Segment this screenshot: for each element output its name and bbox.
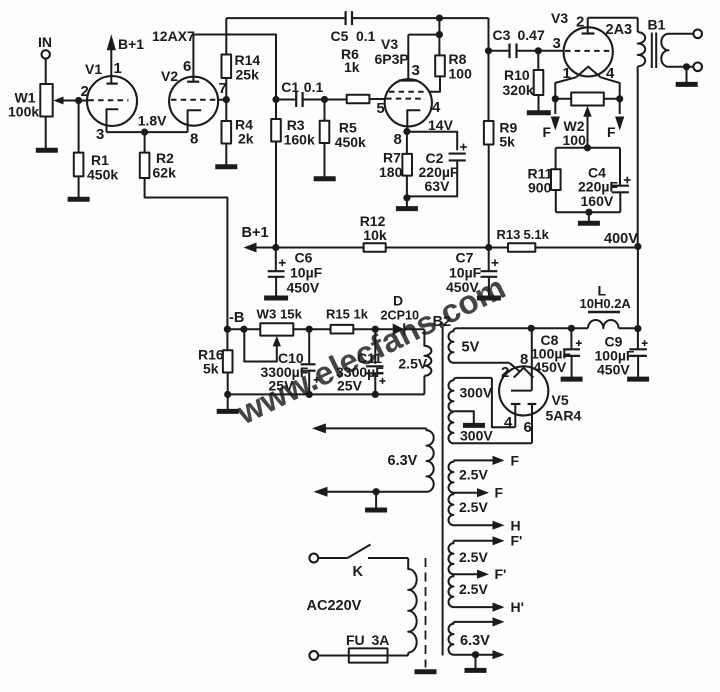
- resistor R16 5k: [198, 347, 233, 377]
- -B rail segment 2: [293, 328, 330, 330]
- wire B1 primary down to 400V node: [637, 66, 639, 246]
- potentiometer W3 15k: [257, 307, 303, 336]
- diode D 2CP10: [381, 293, 420, 336]
- V1 cathode: [96, 109, 118, 143]
- capacitor C1 0.1: [281, 79, 323, 107]
- svg-text:450V: 450V: [597, 362, 630, 378]
- wire to ground: [588, 212, 590, 221]
- pentode V3 envelope: [375, 36, 432, 126]
- svg-text:1k: 1k: [354, 307, 369, 322]
- resistor R15 1k: [326, 307, 369, 334]
- wire V2 plate to C1 node: [193, 35, 276, 100]
- svg-text:C1: C1: [281, 79, 299, 95]
- svg-text:5k: 5k: [499, 134, 515, 150]
- svg-text:W3 15k: W3 15k: [257, 307, 303, 322]
- svg-text:25k: 25k: [236, 67, 260, 83]
- V3 cathode: [407, 99, 441, 132]
- svg-text:V2: V2: [161, 68, 178, 84]
- V2 plate: [183, 35, 199, 82]
- winding 2.5V F lower: [448, 493, 488, 526]
- wire R12 to C7 node: [386, 247, 508, 249]
- svg-text:V1: V1: [85, 61, 102, 77]
- F arrow right of W2: [607, 99, 624, 140]
- svg-text:2: 2: [576, 14, 584, 31]
- ground under 6.3V right: [465, 668, 487, 673]
- B+1 rail arrow: [244, 243, 364, 253]
- label B2: [433, 314, 452, 330]
- triode V4 2A3 envelope: [551, 10, 632, 77]
- wire H arrow: [454, 518, 521, 534]
- C4 box left wire upper: [555, 148, 557, 169]
- svg-text:0.1: 0.1: [356, 28, 376, 44]
- svg-text:F: F: [511, 453, 520, 469]
- W3 wiper loop: [244, 329, 281, 361]
- bias bottom rail: [228, 393, 425, 395]
- wire C3 left: [489, 50, 510, 52]
- wire C1 left: [276, 99, 296, 101]
- wire C3node down to R9: [488, 51, 490, 121]
- node C11 bottom: [372, 391, 379, 398]
- output terminal top: [693, 30, 702, 39]
- V5 plate pin4: [504, 404, 520, 431]
- wire node8 to C2 top: [407, 132, 457, 150]
- ground under W1: [36, 148, 58, 153]
- node top rail: [436, 15, 443, 22]
- svg-text:B+1: B+1: [242, 225, 269, 241]
- choke L 10H0.2A: [580, 283, 632, 329]
- potentiometer W2 100: [555, 93, 619, 149]
- node C3 left: [485, 47, 492, 54]
- ground under shield: [415, 669, 437, 674]
- svg-text:100: 100: [449, 66, 473, 82]
- V4 filament: [576, 67, 601, 78]
- svg-text:450V: 450V: [287, 280, 320, 296]
- wire 300V upper to pin4: [492, 378, 515, 427]
- wire R10 to ground: [538, 95, 540, 111]
- ground under R7: [396, 206, 418, 211]
- svg-text:3A: 3A: [372, 632, 390, 648]
- ground at 300V tap: [463, 423, 485, 428]
- C4 box right wire lower: [619, 192, 621, 212]
- wire R5 to ground: [324, 143, 326, 177]
- wire C7 top: [488, 248, 490, 272]
- svg-text:3: 3: [412, 62, 420, 79]
- svg-text:K: K: [353, 564, 364, 580]
- wire R9 to C7 node: [488, 145, 490, 248]
- node C1 left: [272, 96, 279, 103]
- wire R13 to 400V node: [535, 247, 638, 249]
- wire C10 bottom: [308, 371, 310, 395]
- svg-text:2.5V: 2.5V: [459, 549, 488, 565]
- ground under R1: [68, 197, 90, 202]
- wire 6.3V bottom arrow: [314, 487, 427, 497]
- wire H' arrow: [454, 599, 524, 615]
- svg-text:IN: IN: [38, 34, 52, 50]
- wire V3 plate horiz: [408, 34, 439, 36]
- ground under C7: [477, 296, 501, 301]
- wire V4 plate to B1: [588, 17, 638, 19]
- resistor R6 1k: [341, 46, 369, 103]
- V5 filament: [501, 364, 533, 381]
- node 1.8V junction: [141, 129, 148, 136]
- wire to ground: [227, 394, 229, 409]
- wire 5V winding to pin2: [454, 363, 521, 372]
- rectifier V5 envelope: [499, 366, 581, 423]
- node 7 junction: [223, 96, 230, 103]
- resistor R14 25k: [222, 52, 261, 83]
- node C10 top: [306, 326, 313, 333]
- node B1 secondary ground: [683, 63, 690, 70]
- output terminal bottom: [693, 63, 702, 72]
- svg-text:3: 3: [553, 35, 561, 52]
- wire C6 to ground: [275, 277, 277, 296]
- svg-text:300V: 300V: [460, 385, 493, 401]
- svg-text:V3: V3: [381, 36, 398, 52]
- node 400V: [634, 243, 641, 250]
- node pin4: [616, 95, 623, 102]
- wire C6 top: [275, 248, 277, 272]
- V1 grid (dashed): [88, 99, 128, 101]
- wire node2 to V1 grid: [79, 100, 89, 102]
- ground under C6: [264, 296, 288, 301]
- wire node8 to R7: [406, 132, 408, 154]
- C4 box left wire lower: [555, 190, 557, 212]
- C4 box bottom wire: [556, 211, 621, 213]
- output transformer B1 primary: [638, 17, 666, 67]
- top feedback rail right: [352, 17, 488, 19]
- V4 grid (dashed): [553, 35, 612, 52]
- node C4 bottom: [585, 209, 592, 216]
- F arrow left of W2: [543, 99, 560, 140]
- wire W1 to ground: [45, 117, 47, 149]
- V5 cathode bar: [511, 390, 532, 392]
- wire L to C9 node: [619, 327, 638, 329]
- ground under R10: [527, 110, 551, 115]
- node 2 junction: [75, 83, 89, 104]
- resistor R8 100: [435, 51, 472, 82]
- winding 6.3V right: [448, 617, 504, 659]
- triode V1 envelope: [85, 61, 137, 126]
- svg-text:450k: 450k: [335, 134, 366, 150]
- node rectifier output: [528, 325, 535, 332]
- svg-text:10µF: 10µF: [290, 265, 323, 281]
- V5 pin8 lead: [520, 328, 532, 390]
- V4 pin4 lead: [601, 65, 620, 99]
- svg-text:300V: 300V: [460, 428, 493, 444]
- svg-text:5: 5: [376, 100, 384, 117]
- svg-text:H': H': [511, 599, 524, 615]
- svg-text:R10: R10: [504, 67, 530, 83]
- wire node2 to R1: [78, 101, 80, 153]
- wire V2 grid pin7: [219, 80, 227, 100]
- C4 box top wire: [556, 147, 620, 149]
- wire rail to C8 node: [531, 327, 588, 329]
- svg-text:5V: 5V: [462, 340, 480, 356]
- node -B: [224, 310, 245, 333]
- svg-text:180: 180: [379, 164, 403, 180]
- wire D to bias winding: [404, 328, 424, 330]
- ground under C8: [561, 377, 583, 382]
- ground under R5: [314, 176, 336, 181]
- B2 core: [442, 327, 444, 656]
- svg-text:R13: R13: [497, 227, 521, 242]
- svg-text:4: 4: [504, 414, 513, 431]
- wire F mid arrow: [454, 485, 504, 501]
- mains terminal top: [309, 554, 318, 563]
- svg-text:8: 8: [394, 131, 402, 148]
- label B+1 rail: [242, 225, 269, 241]
- svg-text:160V: 160V: [581, 193, 614, 209]
- svg-text:AC220V: AC220V: [307, 598, 362, 614]
- svg-text:900: 900: [528, 180, 552, 196]
- B2 primary winding: [408, 558, 417, 656]
- bias winding 2.5V: [398, 329, 431, 394]
- wire R4 to ground: [225, 144, 227, 165]
- svg-text:1: 1: [114, 60, 122, 77]
- svg-text:1: 1: [563, 65, 571, 82]
- node C1 right: [321, 96, 328, 103]
- winding 300V upper: [449, 378, 493, 412]
- svg-text:-B: -B: [229, 310, 244, 326]
- svg-text:C3: C3: [493, 27, 511, 43]
- label 400V: [604, 231, 638, 247]
- winding 2.5V F' lower: [449, 574, 489, 607]
- wire F' mid arrow: [454, 566, 507, 582]
- wire R3 to B+1 node: [275, 142, 277, 248]
- V5 plate pin6: [524, 404, 537, 443]
- resistor R10 320k: [503, 67, 544, 98]
- V3 plate: [399, 35, 420, 81]
- svg-text:2.5V: 2.5V: [459, 581, 488, 597]
- wire R14 to node7: [225, 78, 227, 100]
- mains terminal bottom: [309, 651, 318, 660]
- V4 pin1 lead: [555, 65, 576, 99]
- svg-text:63V: 63V: [425, 178, 451, 194]
- svg-text:1.8V: 1.8V: [138, 113, 167, 129]
- svg-text:100k: 100k: [8, 104, 39, 120]
- svg-text:FU: FU: [346, 632, 365, 648]
- V3 screen grid (dashed): [389, 91, 428, 93]
- resistor R11 900: [528, 166, 561, 196]
- wire node to V4 grid: [538, 50, 564, 52]
- node wiper to C4 box: [584, 144, 591, 151]
- svg-text:400V: 400V: [604, 231, 638, 247]
- resistor R7 180: [379, 150, 412, 181]
- node C11 top: [372, 326, 379, 333]
- wire R16 to bottom rail: [227, 373, 229, 395]
- wire node to R3: [275, 100, 277, 120]
- capacitor C5 0.1: [331, 11, 376, 44]
- wire C8 to ground: [571, 356, 573, 377]
- wire node to R5: [324, 100, 326, 121]
- svg-text:450k: 450k: [87, 167, 118, 183]
- wire to ground: [686, 67, 688, 83]
- capacitor C9 100uF 450V: [595, 334, 648, 378]
- wire top node vertical: [438, 18, 440, 34]
- wire R14 top to top rail: [225, 18, 227, 54]
- svg-text:F: F: [607, 124, 616, 140]
- node R8 top: [436, 31, 443, 38]
- svg-text:160k: 160k: [284, 132, 315, 148]
- svg-text:62k: 62k: [153, 165, 177, 181]
- wire C3 right: [517, 50, 539, 52]
- wire C7 to ground: [488, 277, 490, 296]
- node C10 bottom: [306, 391, 313, 398]
- node C7 top: [485, 244, 492, 251]
- svg-text:C5: C5: [331, 28, 349, 44]
- svg-text:V3: V3: [551, 10, 568, 26]
- svg-text:F': F': [495, 566, 507, 582]
- capacitor C3 0.47: [493, 27, 545, 58]
- svg-text:F: F: [495, 485, 504, 501]
- svg-text:4: 4: [606, 65, 615, 82]
- capacitor C2 220uF 63V: [419, 144, 467, 194]
- potentiometer W1 100k: [8, 84, 53, 120]
- svg-text:B+1: B+1: [118, 36, 144, 52]
- svg-text:6.3V: 6.3V: [388, 453, 418, 469]
- svg-text:6: 6: [524, 419, 532, 436]
- svg-text:D: D: [393, 293, 403, 309]
- V2 grid (dashed): [171, 99, 219, 101]
- resistor R12 10k: [360, 213, 387, 252]
- ground under R16: [217, 409, 239, 414]
- B1 core: [652, 33, 656, 69]
- wire node7 to R4: [225, 100, 227, 121]
- -B rail segment 1: [227, 328, 260, 330]
- capacitor C4 220uF 160V: [578, 165, 631, 210]
- wire node to R10: [537, 51, 539, 70]
- node C9 top: [634, 325, 641, 332]
- svg-text:2.5V: 2.5V: [398, 356, 427, 372]
- svg-text:6.3V: 6.3V: [460, 633, 490, 649]
- node pin1: [552, 95, 559, 102]
- svg-text:C7: C7: [456, 250, 474, 266]
- svg-text:10H0.2A: 10H0.2A: [580, 296, 632, 311]
- wire to switch: [318, 557, 347, 559]
- wire to ground: [475, 655, 477, 669]
- wire node to ground: [406, 198, 408, 207]
- wire R15 to D node: [353, 328, 392, 330]
- svg-text:R15: R15: [326, 307, 350, 322]
- svg-text:2A3: 2A3: [606, 22, 633, 38]
- resistor R5 450k: [320, 120, 366, 151]
- wire node to R6: [325, 99, 347, 101]
- 300V center tap: [454, 411, 474, 423]
- wire C11 bottom: [374, 373, 376, 394]
- wire cathode rail 1.8V: [107, 113, 188, 133]
- resistor R2 62k: [140, 150, 176, 181]
- node R16 bottom: [224, 391, 231, 398]
- wire R8 to V3 screen: [429, 76, 440, 91]
- W1 wiper arrow: [54, 97, 79, 105]
- C4 box right wire upper: [619, 148, 621, 186]
- label 12AX7: [152, 28, 195, 44]
- wire switch to primary: [368, 557, 408, 559]
- resistor R1 450k: [74, 152, 119, 183]
- wire R6 to V3 grid: [369, 98, 385, 100]
- node R7 bottom: [403, 194, 410, 201]
- svg-text:0.47: 0.47: [518, 27, 545, 43]
- svg-text:320k: 320k: [503, 82, 534, 98]
- W2 wiper arrow: [583, 106, 591, 148]
- svg-text:6: 6: [183, 58, 191, 75]
- wire node to R2: [144, 132, 146, 153]
- svg-text:8: 8: [190, 131, 198, 148]
- wire to fuse: [318, 655, 349, 657]
- svg-text:5k: 5k: [203, 361, 219, 377]
- wire C8 top: [570, 328, 572, 349]
- node B+1: [272, 244, 279, 251]
- triode V2 envelope: [161, 68, 218, 126]
- svg-text:2k: 2k: [238, 131, 254, 147]
- V3 control grid (dashed): [376, 99, 425, 117]
- svg-text:12AX7: 12AX7: [152, 28, 195, 44]
- B+1 arrow at V1 plate: [107, 34, 145, 77]
- wire 6.3V top arrow: [312, 423, 427, 433]
- label AC220V: [307, 598, 362, 614]
- watermark www.elecfans.com: [230, 268, 511, 431]
- wire node to R8: [438, 35, 440, 56]
- resistor R3 160k: [271, 117, 315, 148]
- wire C2 bottom loop: [407, 160, 457, 196]
- B2 shield (dashed): [425, 558, 427, 668]
- svg-text:F': F': [511, 533, 523, 549]
- capacitor C10 3300uF 25V: [261, 350, 320, 394]
- capacitor C7 10uF 450V: [446, 250, 498, 296]
- wire top rail down to C3 node: [488, 18, 490, 51]
- node 8 of V3: [394, 128, 411, 148]
- svg-text:2.5V: 2.5V: [459, 499, 488, 515]
- top feedback rail left: [226, 17, 345, 19]
- heater winding 6.3V left: [388, 428, 434, 491]
- winding 2.5V F' upper: [448, 533, 522, 575]
- svg-text:450V: 450V: [534, 359, 567, 375]
- svg-text:C6: C6: [295, 250, 313, 266]
- node 6.3V center tap: [373, 488, 380, 495]
- fuse FU 3A: [346, 632, 389, 663]
- wire C11 top: [374, 329, 376, 364]
- V2 cathode: [188, 110, 202, 147]
- svg-text:14V: 14V: [428, 117, 454, 133]
- V1 plate: [107, 50, 118, 84]
- capacitor C6 10uF 450V: [268, 250, 323, 296]
- capacitor C11 3300uF 25V: [336, 350, 386, 394]
- svg-text:H: H: [511, 518, 521, 534]
- node W3 left: [240, 326, 247, 333]
- wire R7 to node: [406, 176, 408, 198]
- winding 300V lower: [449, 412, 532, 443]
- ground under 6.3V tap: [365, 508, 387, 513]
- input terminal IN: [38, 34, 52, 59]
- wire C9 to ground: [637, 356, 639, 377]
- wire R2 to -B rail: [145, 178, 228, 329]
- wire fuse to primary: [388, 655, 409, 657]
- resistor R4 2k: [222, 117, 254, 147]
- capacitor C8 100uF 450V: [531, 332, 582, 375]
- wire R1 to ground: [78, 176, 80, 197]
- svg-text:B1: B1: [648, 17, 666, 33]
- svg-text:F: F: [543, 124, 552, 140]
- svg-text:100: 100: [563, 132, 587, 148]
- svg-text:V5: V5: [552, 392, 569, 408]
- svg-text:10k: 10k: [363, 227, 387, 243]
- svg-text:6P3P: 6P3P: [375, 51, 409, 67]
- ground under B1 secondary: [676, 82, 698, 87]
- ground under C4 box: [578, 221, 600, 226]
- svg-text:2: 2: [501, 364, 509, 381]
- svg-text:5.1k: 5.1k: [524, 227, 550, 242]
- wire C9 top: [637, 329, 639, 349]
